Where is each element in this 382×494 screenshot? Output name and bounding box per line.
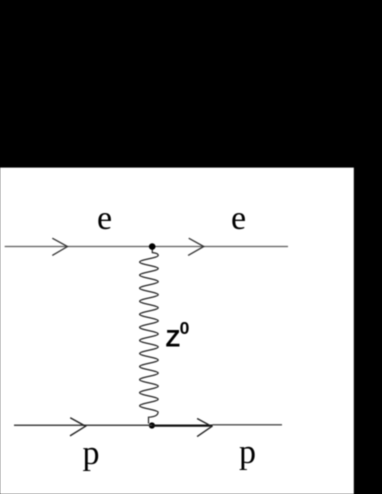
vertex dot (electron-Z0) bbox=[149, 243, 156, 250]
svg-text:0: 0 bbox=[180, 318, 190, 338]
electron arrow 2 bbox=[188, 238, 204, 255]
vertex dot (proton-Z0) bbox=[149, 422, 155, 428]
svg-text:e: e bbox=[97, 200, 112, 237]
white canvas bbox=[0, 168, 354, 494]
proton arrow 2 bbox=[197, 419, 212, 437]
electron arrow 1 bbox=[52, 238, 67, 255]
proton arrow 1 bbox=[70, 418, 86, 436]
svg-text:e: e bbox=[231, 200, 246, 237]
Z0 boson propagator (wavy line) bbox=[140, 250, 159, 424]
proton line (thin right segment) bbox=[213, 424, 283, 426]
svg-text:p: p bbox=[239, 434, 256, 471]
svg-text:p: p bbox=[83, 435, 100, 472]
proton line (bold middle segment) bbox=[152, 425, 213, 427]
svg-text:Z: Z bbox=[166, 326, 181, 353]
proton line (thin left segment) bbox=[14, 424, 152, 426]
electron line (top, incoming+outgoing) bbox=[5, 246, 288, 248]
